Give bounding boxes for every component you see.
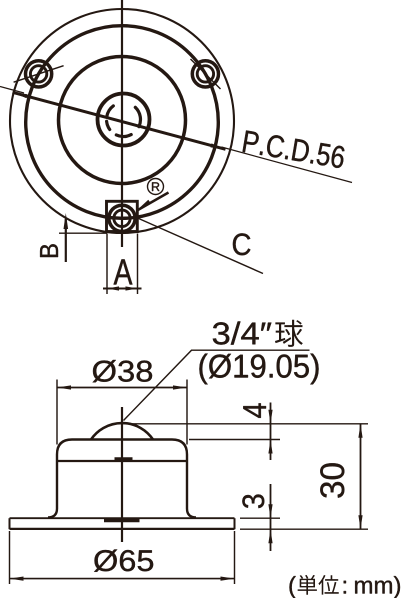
flange plate bbox=[10, 517, 235, 519]
Ø65 dimension bbox=[9, 531, 11, 584]
Ø38 dimension bbox=[56, 380, 58, 445]
P.C.D. dimension diagonal line bbox=[13, 92, 226, 149]
kanji ball (kyuu) bbox=[275, 320, 303, 347]
bolt hole top-right bbox=[192, 61, 218, 87]
P.C.D.56 label bbox=[243, 130, 346, 169]
bolt hole top-left bbox=[25, 61, 51, 87]
leader for ball label bbox=[124, 350, 310, 420]
3 dimension (plate thickness) bbox=[240, 517, 280, 519]
A dimension extension lines bbox=[106, 234, 108, 295]
slash through top-right hole bbox=[191, 59, 221, 89]
C label bbox=[233, 233, 251, 255]
ball dome arc bbox=[91, 423, 153, 439]
30 dimension (overall height) bbox=[240, 528, 368, 530]
slash through top-left hole bbox=[14, 66, 64, 83]
3/4" ball label bbox=[213, 321, 272, 344]
main ball circle bbox=[98, 94, 150, 146]
body circle bbox=[59, 57, 186, 184]
(Ø19.05) label bbox=[199, 354, 318, 385]
top view: flange with ball, vertical centerline bbox=[121, 0, 123, 247]
side view centerline bbox=[121, 407, 123, 542]
cup top outline bbox=[57, 440, 187, 462]
(R) leader arrow to bottom hole bbox=[137, 193, 169, 211]
center hole dash on plate bbox=[104, 519, 140, 522]
inner ball ring arcs bbox=[107, 106, 141, 137]
outer flange circle (Ø65) bbox=[10, 9, 234, 233]
A label bbox=[114, 259, 133, 284]
B label (rotated) bbox=[40, 244, 58, 257]
seam line bbox=[57, 460, 187, 462]
A dimension line with arrows bbox=[103, 288, 142, 290]
(R) mark bbox=[148, 179, 164, 195]
thin leader to P.C.D.56 text bbox=[222, 147, 353, 183]
B dimension line with arrow bbox=[65, 219, 67, 262]
4 dimension (ball protrusion) bbox=[126, 423, 368, 425]
thin extension upper-left bbox=[0, 87, 24, 94]
C leader line bbox=[138, 218, 264, 274]
bolt hole bottom bbox=[109, 205, 135, 231]
ball center tick bbox=[115, 457, 133, 460]
B extension line bbox=[59, 232, 107, 234]
units note (tani: mm) bbox=[289, 576, 295, 598]
notch rectangle around bottom hole bbox=[107, 201, 138, 231]
body sides with flare bbox=[48, 461, 57, 517]
bolt circle P.C.D.56 bbox=[26, 26, 219, 219]
